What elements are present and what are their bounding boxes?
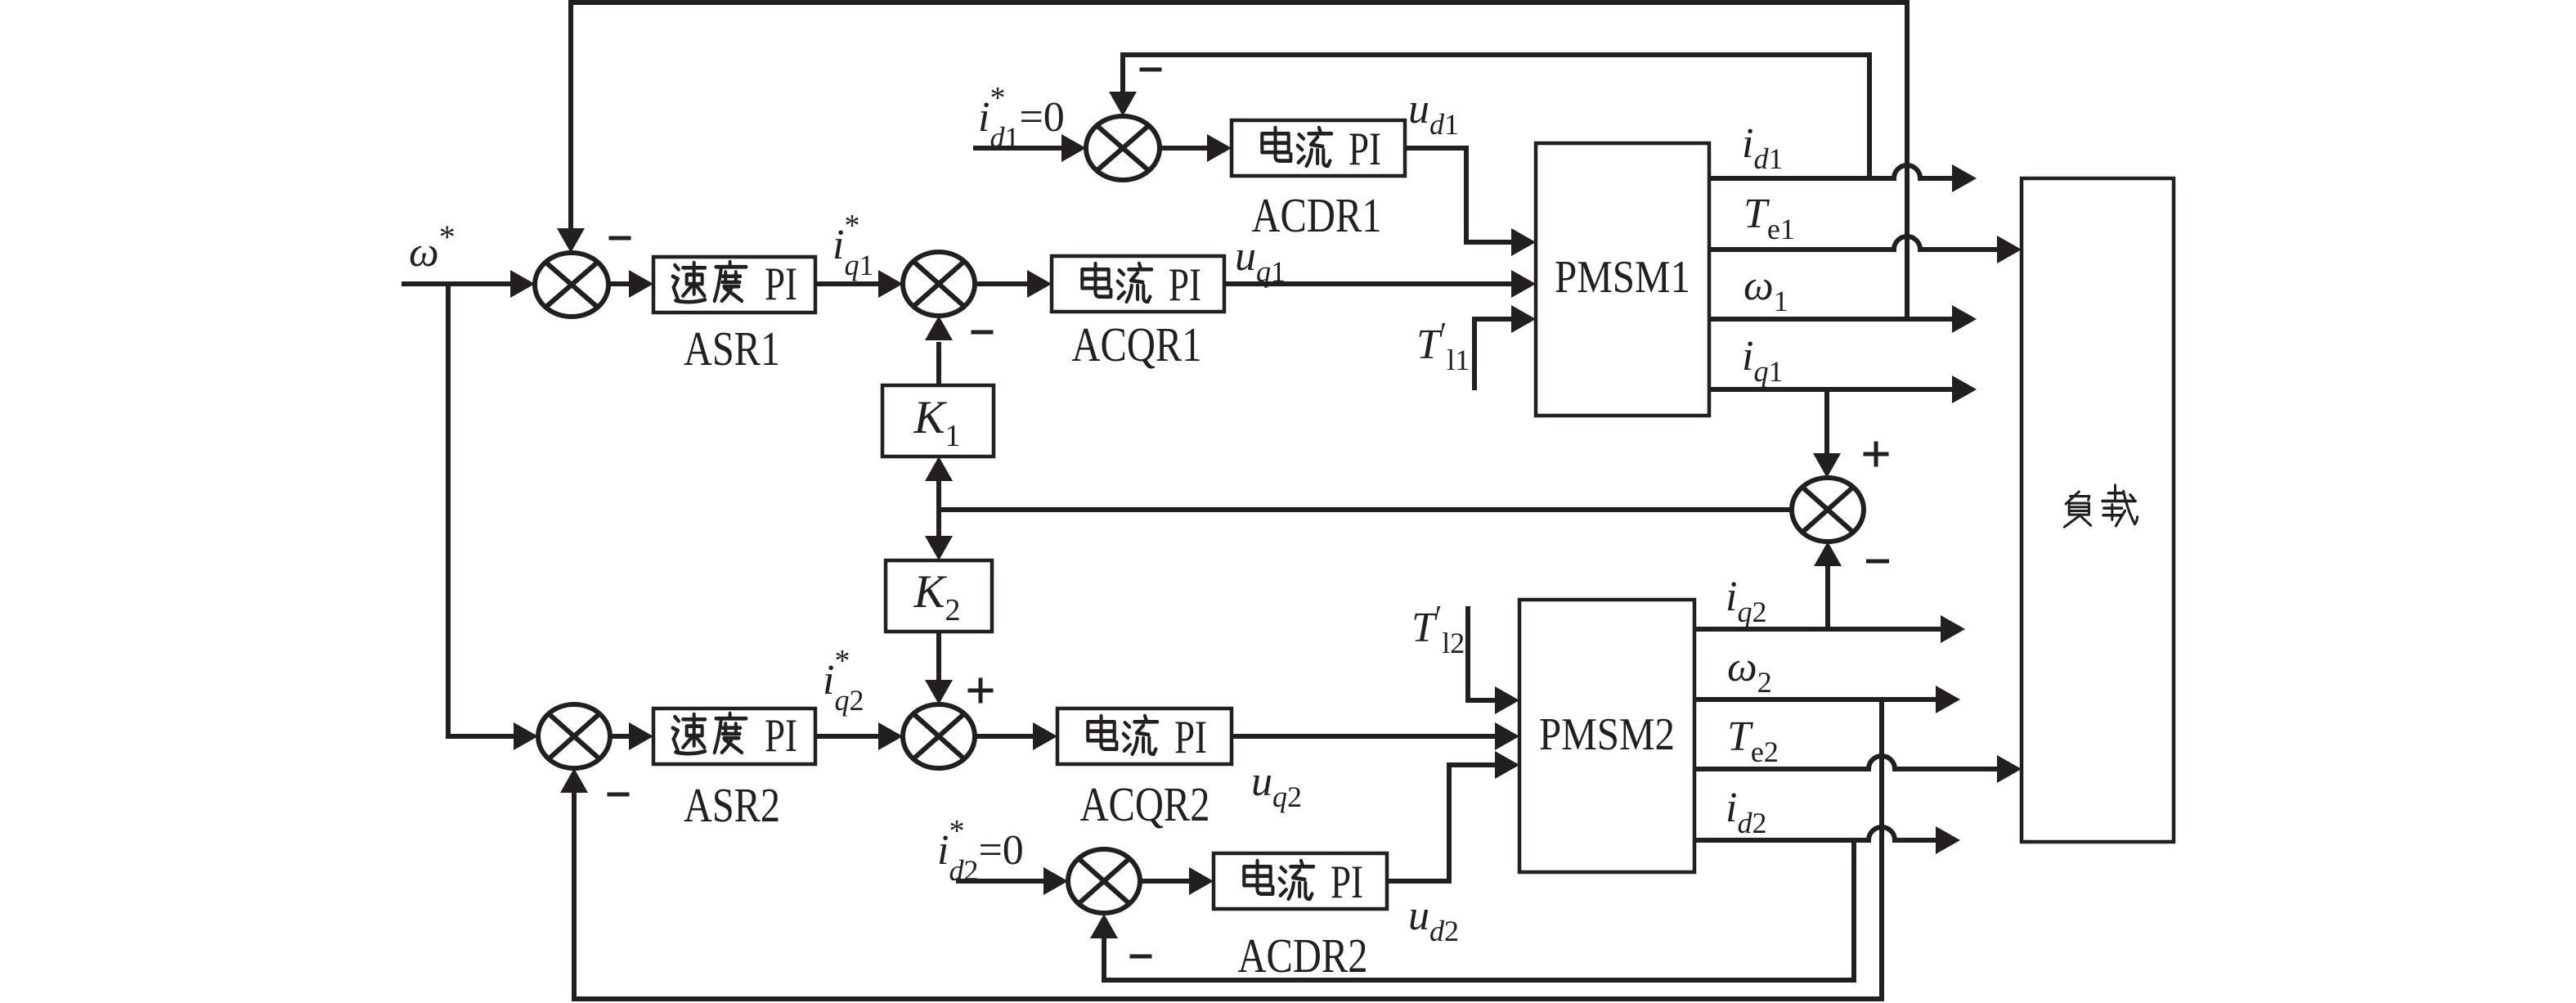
block ACDR2 current PI [1214, 853, 1387, 909]
label id1*=0 input [978, 81, 1065, 154]
label id1 output [1742, 120, 1783, 175]
wire Te1 output [1709, 236, 2022, 263]
wire id1 output [1709, 164, 1977, 192]
label iq2 output [1726, 573, 1766, 628]
label omega2 output [1727, 644, 1772, 699]
svg-text:ACQR1: ACQR1 [1072, 317, 1202, 371]
wire T'l1 input stub [1474, 305, 1536, 390]
wire omega* input [402, 270, 535, 298]
label omega1 output [1744, 263, 1788, 317]
block ACQR1 current PI [1052, 256, 1224, 312]
summing junction ACDR1 input [1086, 116, 1160, 180]
label omega* reference input [409, 218, 456, 276]
label iq1 output [1742, 333, 1783, 388]
svg-text:ACDR2: ACDR2 [1238, 929, 1368, 983]
summing junction ASR1 [535, 253, 608, 317]
svg-text:ACQR2: ACQR2 [1080, 777, 1210, 831]
wire uq1 to PMSM1 [1224, 270, 1536, 298]
minus sign at ACDR1 top [1140, 68, 1162, 72]
wire id1 feedback (upper) [1109, 55, 1869, 178]
minus sign at ACDR2 [1130, 955, 1152, 959]
wire id2 output [1694, 826, 1960, 854]
text load in load box [2064, 485, 2137, 527]
wire K1 output to ACQR1 [925, 316, 953, 385]
summing junction ACDR2 [1068, 849, 1140, 913]
minus sign at torque junction [1866, 560, 1889, 564]
label ACDR1 [1252, 188, 1382, 242]
label T'l2 load torque 2 [1411, 600, 1465, 659]
block ASR2 speed PI [653, 708, 815, 764]
summing junction torque difference [1792, 478, 1864, 542]
wire omega2 output [1694, 686, 1960, 713]
label ACQR1 [1072, 317, 1202, 371]
wire torque difference line [939, 507, 1792, 512]
wire omega1 speed feedback (top) [557, 2, 1907, 319]
block ACQR2 current PI [1057, 708, 1232, 764]
text current PI in ACDR1 box [1262, 124, 1381, 175]
label T'l1 load torque 1 [1416, 317, 1470, 376]
block PMSM2 [1519, 600, 1694, 872]
label ud1 [1408, 86, 1459, 141]
text speed PI in ASR1 box [673, 259, 797, 310]
summing junction ACQR2 [903, 704, 975, 768]
wire ACDR1 junction to current PI [1160, 134, 1232, 162]
wire ACQR1 junction to current PI [975, 270, 1052, 298]
minus sign at ASR1 [609, 236, 631, 241]
label ASR1 [684, 322, 780, 376]
wire ASR1 to ACQR1 junction [815, 270, 903, 298]
wire omega* branch down to ASR2 [448, 284, 538, 750]
summing junction ACQR1 [903, 252, 975, 316]
wire id1*=0 input [973, 134, 1086, 162]
wire iq2 branch to torque junction [1814, 542, 1842, 629]
svg-text:PI: PI [1331, 857, 1363, 908]
svg-text:ASR2: ASR2 [684, 778, 780, 832]
label uq1 [1235, 233, 1286, 288]
svg-text:PI: PI [765, 259, 797, 310]
minus sign at ACQR1 [972, 331, 994, 335]
wire T'l2 input stub [1468, 606, 1519, 714]
label PMSM2 motor [1539, 709, 1675, 760]
summing junction ASR2 [538, 704, 610, 768]
wire junction to K2 input [925, 510, 953, 560]
text current PI in ACDR2 box [1244, 857, 1363, 908]
block ASR1 speed PI [653, 257, 815, 313]
plus sign at torque junction [1864, 442, 1889, 467]
label PMSM1 motor [1555, 252, 1690, 303]
wire ASR2 junction to speed PI [610, 722, 653, 750]
block PMSM1 [1536, 143, 1709, 416]
label ACQR2 [1080, 777, 1210, 831]
block load [2022, 178, 2174, 842]
plus sign at ACQR2 top [968, 678, 994, 704]
svg-text:PI: PI [1174, 712, 1207, 763]
label ACDR2 [1238, 929, 1368, 983]
label Te2 output [1727, 713, 1779, 768]
wire omega1 output [1709, 305, 1977, 333]
svg-text:ASR1: ASR1 [684, 322, 780, 376]
wire ud1 route to PMSM1 [1405, 148, 1536, 256]
wire id2*=0 input [956, 867, 1068, 895]
wire iq2 output [1694, 615, 1965, 643]
wire uq2 to PMSM2 [1232, 722, 1519, 750]
wire ACDR2 junction to current PI [1140, 867, 1214, 895]
block ACDR1 current PI [1232, 120, 1405, 176]
wire id2 feedback (lower) [1090, 840, 1854, 980]
wire ud2 route to PMSM2 [1387, 751, 1519, 881]
wire K2 output to ACQR2 [925, 632, 953, 704]
label id2 output [1726, 785, 1766, 839]
svg-text:PI: PI [765, 710, 797, 762]
wire ASR1 junction to speed PI [608, 270, 653, 298]
label ud2 [1408, 893, 1459, 947]
wire omega2 feedback (bottom) [560, 699, 1882, 999]
label iq1* current reference [832, 209, 873, 281]
text current PI in ACQR1 box [1082, 259, 1201, 311]
wire ACQR2 junction to current PI [975, 722, 1057, 750]
label K2 gain [913, 566, 960, 627]
wire Te2 output [1694, 755, 2022, 783]
label ASR2 [684, 778, 780, 832]
svg-text:PI: PI [1169, 259, 1201, 311]
svg-text:PMSM1: PMSM1 [1555, 252, 1690, 303]
wire iq1 output [1709, 376, 1977, 403]
wire junction to K1 input [925, 457, 953, 510]
block K2 [886, 560, 992, 632]
wire ASR2 to ACQR2 junction [815, 722, 903, 750]
label iq2* current reference [823, 644, 864, 717]
block K1 [882, 385, 994, 457]
label Te1 output [1744, 191, 1795, 245]
svg-text:ACDR1: ACDR1 [1252, 188, 1382, 242]
svg-text:PI: PI [1349, 124, 1381, 175]
label id2*=0 input [937, 814, 1024, 887]
label K1 gain [913, 392, 960, 453]
wire iq1 branch to torque junction [1813, 389, 1841, 478]
text current PI in ACQR2 box [1088, 712, 1207, 763]
minus sign at ASR2 [608, 793, 630, 797]
svg-text:PMSM2: PMSM2 [1539, 709, 1675, 760]
label uq2 [1251, 758, 1302, 813]
text speed PI in ASR2 box [673, 710, 797, 762]
